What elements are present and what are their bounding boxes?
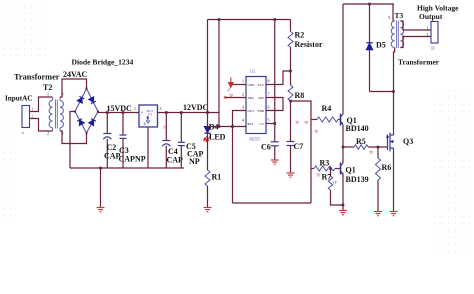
wire line B (RST riser) [218, 20, 220, 127]
wire pin8 VCC jog to R2/R8 node [266, 71, 291, 85]
svg-text:7: 7 [268, 92, 270, 97]
transistor Q1 BD140 [341, 114, 344, 126]
svg-text:1: 1 [427, 27, 429, 31]
resistor R7 [330, 169, 332, 177]
bridge diode 2 (top-right) [89, 97, 96, 104]
MOSFET Q3 [393, 92, 395, 130]
ground rail [70, 167, 184, 169]
capacitor C7 [287, 142, 295, 146]
wire pin4 RST / LED node [208, 126, 247, 128]
svg-text:2: 2 [47, 131, 49, 136]
svg-text:TP: TP [369, 151, 373, 155]
capacitor C3 [122, 113, 124, 169]
svg-text:TP: TP [316, 174, 320, 178]
wire 12VDC rail [158, 112, 220, 114]
wire T2 secondary top to bridge top (24VAC net) [60, 79, 87, 97]
end marker on TRG wire [224, 96, 226, 98]
svg-text:NE555: NE555 [249, 137, 260, 142]
wire R8 node to driver column [291, 101, 312, 203]
svg-text:3: 3 [242, 105, 244, 110]
wire pin2 TRG [225, 97, 246, 99]
svg-text:Transformer: Transformer [398, 58, 440, 67]
wire T3 secondary to connector J2 [400, 21, 431, 30]
resistor R2 [290, 20, 292, 32]
svg-text:C6: C6 [261, 143, 271, 152]
svg-text:VT: VT [148, 113, 152, 117]
svg-text:R2: R2 [295, 31, 305, 40]
bridge diode 3 (bottom-left) [77, 119, 84, 126]
capacitor C5 [180, 113, 182, 169]
svg-text:TP: TP [333, 181, 337, 185]
J2 pin numbers [427, 27, 429, 38]
svg-text:24VAC: 24VAC [63, 70, 88, 79]
wire bottom return [233, 202, 312, 204]
svg-text:1: 1 [242, 79, 244, 84]
transformer T3 [393, 4, 395, 21]
svg-text:1: 1 [47, 92, 49, 97]
svg-text:RST: RST [248, 122, 254, 126]
svg-text:R7: R7 [322, 173, 332, 182]
ground symbol under R6 [374, 212, 382, 216]
capacitor C2 [106, 113, 108, 169]
svg-text:15VDC: 15VDC [107, 104, 133, 113]
diode D5 [369, 4, 371, 43]
transformer T2 [49, 97, 63, 131]
LED D4 emission arrows [204, 136, 211, 142]
svg-text:5: 5 [268, 118, 270, 123]
connector J2 High Voltage Output [431, 22, 438, 44]
svg-text:CV: CV [260, 122, 265, 126]
T2 pin numbers [47, 92, 64, 136]
wire D5 bottom to T3 primary bottom / Q3 drain [370, 91, 394, 93]
transistor Q1 BD139 [341, 163, 344, 175]
svg-text:TP: TP [314, 130, 318, 134]
resistor R4 [311, 119, 317, 121]
wire BD139 collector to R5 node [342, 147, 344, 163]
svg-text:C7: C7 [294, 142, 304, 151]
svg-text:Diode Bridge_1234: Diode Bridge_1234 [72, 58, 134, 67]
svg-text:R4: R4 [322, 104, 332, 113]
svg-text:VCC: VCC [258, 83, 265, 87]
svg-text:T3: T3 [395, 11, 404, 20]
wire pins 7-6 bracket [266, 98, 283, 111]
wire Q1 BD140 collector riser [342, 4, 344, 114]
capacitor C6 column from top wire [274, 20, 276, 160]
svg-text:NP: NP [189, 157, 200, 166]
wire T2 secondary bottom to bridge bottom [60, 131, 87, 144]
wire top distribution [208, 19, 291, 21]
resistor R1 [207, 134, 209, 171]
svg-text:J2: J2 [431, 46, 435, 51]
svg-text:6: 6 [268, 105, 270, 110]
svg-text:2: 2 [427, 33, 429, 37]
svg-text:DIS: DIS [259, 96, 264, 100]
ground symbol under C7 [287, 173, 295, 177]
wire pin5 to C6 [266, 123, 275, 125]
IC U2 555 timer [246, 77, 266, 134]
555 pin numbers [242, 79, 270, 123]
svg-text:InputAC: InputAC [5, 95, 33, 103]
svg-text:3: 3 [388, 15, 390, 20]
wire top right distribution [343, 3, 394, 5]
voltage regulator U1 [139, 105, 158, 127]
svg-text:CAPNP: CAPNP [119, 155, 146, 164]
wire pin3 OUT and driver riser [233, 111, 247, 204]
connector J1 InputAC [22, 106, 30, 128]
resistor R3 [311, 168, 314, 170]
svg-text:TP: TP [304, 121, 308, 125]
svg-text:Q1: Q1 [346, 166, 356, 175]
T3 pin numbers [388, 15, 404, 49]
svg-text:Resistor: Resistor [295, 40, 323, 49]
red down-arrow flag on pin 1 [228, 78, 234, 92]
ground symbol left [97, 208, 105, 212]
wire Q1 BD140 emitter down to R5 node [342, 125, 344, 147]
svg-text:TRG: TRG [248, 96, 255, 100]
svg-text:1: 1 [134, 106, 136, 111]
resistor R6 [377, 147, 379, 158]
svg-text:CAP: CAP [167, 156, 184, 165]
svg-text:R3: R3 [320, 159, 330, 168]
wire regulator ground pin to rail [147, 127, 149, 168]
svg-text:LED: LED [209, 133, 226, 142]
bridge diode 1 (top-left) [77, 96, 84, 103]
svg-text:D5: D5 [376, 41, 386, 50]
wire 15VDC rail [98, 112, 140, 114]
svg-text:2: 2 [144, 121, 146, 126]
svg-text:3: 3 [160, 106, 162, 111]
wire pin1 stub [231, 84, 246, 86]
svg-text:R5: R5 [356, 137, 366, 146]
wire Q3 source to ground [393, 152, 395, 212]
capacitor C4 [165, 113, 167, 169]
555 pin names [248, 83, 265, 126]
ground symbol under R1 [204, 208, 212, 212]
wire J1 pin2 to T2 primary bottom [30, 119, 53, 132]
ground symbol under C6 [271, 160, 279, 164]
svg-text:OUT: OUT [248, 109, 255, 113]
svg-text:R1: R1 [212, 173, 222, 182]
svg-text:GND: GND [248, 83, 256, 87]
svg-text:Transformer: Transformer [14, 73, 60, 82]
ground symbol under Q3 [390, 212, 398, 216]
wire bridge left vertex to ground rail [70, 112, 75, 169]
svg-text:BD140: BD140 [346, 124, 369, 133]
svg-text:8: 8 [268, 79, 270, 84]
resistor R5 [343, 146, 354, 148]
bridge diode 4 (bottom-right) [89, 119, 96, 126]
svg-text:Q3: Q3 [403, 137, 413, 146]
wire T3 primary bottom [394, 48, 395, 92]
svg-text:R6: R6 [382, 163, 392, 172]
svg-text:TP: TP [163, 126, 167, 130]
svg-text:THR: THR [258, 109, 265, 113]
svg-text:BD139: BD139 [346, 175, 369, 184]
diode bridge [75, 89, 98, 134]
wire BD139 emitter to ground [342, 174, 344, 210]
wire rail drop to ground [100, 168, 102, 207]
svg-text:2: 2 [242, 92, 244, 97]
svg-text:J1: J1 [22, 131, 25, 135]
regulator pin numbers [134, 106, 162, 126]
svg-text:4: 4 [242, 118, 244, 123]
svg-text:TP: TP [295, 121, 299, 125]
svg-text:Output: Output [419, 12, 443, 21]
ground symbol under BD139 [339, 211, 347, 215]
resistor R8 [290, 71, 292, 85]
wire 12V riser and LED column [207, 20, 209, 127]
wire J1 pin1 to T2 primary top [30, 97, 53, 112]
LED D4 [204, 127, 210, 134]
svg-text:R8: R8 [295, 91, 305, 100]
svg-text:12VDC: 12VDC [183, 103, 209, 112]
svg-text:U2: U2 [250, 69, 255, 74]
